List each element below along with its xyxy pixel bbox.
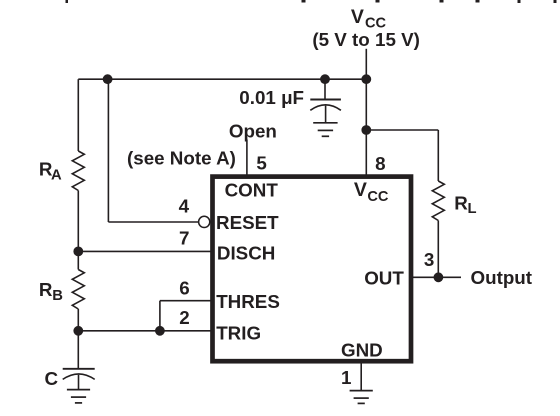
svg-text:C: C (45, 368, 59, 389)
capacitor C arc plate (63, 374, 95, 380)
svg-text:V: V (351, 6, 364, 28)
junction dot DISCH (73, 247, 83, 257)
junction dot TRIG right (155, 326, 165, 336)
svg-text:1: 1 (341, 367, 351, 388)
wire DISCH pin7 (78, 250, 211, 252)
svg-text:GND: GND (341, 340, 383, 361)
svg-text:(see Note A): (see Note A) (127, 147, 236, 168)
junction dot top-left (103, 74, 113, 84)
wire RESET vertical (107, 79, 109, 222)
resistor label RA (39, 158, 62, 183)
node VCC supply label (351, 6, 387, 32)
junction dot OUT (434, 272, 444, 282)
wire THRES pin6 (160, 300, 211, 302)
svg-text:CC: CC (367, 189, 389, 205)
svg-text:Open: Open (229, 120, 277, 141)
wire RESET pin4 (108, 221, 198, 223)
capacitor C bottom lead (78, 375, 80, 390)
resistor RB (72, 270, 84, 310)
wire VCC drop (365, 49, 367, 175)
svg-text:7: 7 (179, 227, 189, 248)
capacitor 0.01uF plate (310, 99, 341, 101)
wire GND pin1 (360, 363, 362, 391)
op-amp U1 555 timer box (213, 177, 412, 362)
capacitor C plate (63, 368, 95, 370)
svg-text:A: A (51, 167, 62, 183)
svg-text:4: 4 (179, 196, 190, 217)
svg-text:THRES: THRES (216, 291, 280, 312)
svg-text:R: R (39, 279, 53, 300)
svg-text:5: 5 (256, 153, 266, 174)
svg-text:2: 2 (179, 307, 189, 328)
ground for C (67, 390, 90, 403)
wire top rail (78, 78, 366, 80)
svg-text:OUT: OUT (364, 267, 404, 288)
svg-text:0.01 μF: 0.01 μF (239, 87, 304, 108)
ground for 0.01uF (313, 123, 337, 137)
svg-text:3: 3 (424, 249, 434, 270)
resistor RA (72, 151, 84, 191)
svg-text:RESET: RESET (216, 212, 279, 233)
resistor label RL (454, 192, 476, 217)
wire RL to OUT (437, 221, 439, 278)
cropped text remnants top edge (66, 0, 557, 3)
wire OUT pin3 (413, 276, 461, 278)
junction dot TRIG left (73, 326, 83, 336)
svg-text:B: B (52, 288, 63, 304)
resistor RL (432, 181, 444, 221)
svg-text:(5 V to 15 V): (5 V to 15 V) (312, 29, 420, 50)
pin label VCC inner (354, 179, 389, 205)
svg-text:DISCH: DISCH (217, 243, 275, 264)
RESET inverting circle pin4 (199, 216, 210, 227)
wire RB to cap C (77, 309, 79, 369)
svg-text:R: R (454, 192, 468, 213)
wire CONT pin5 (246, 140, 248, 176)
wire TRIG pin2 (78, 330, 211, 332)
ground for pin1 (350, 391, 373, 404)
junction dot cap 0.01uF (320, 74, 330, 84)
wire RA to RB (77, 191, 79, 270)
svg-text:6: 6 (179, 277, 189, 298)
capacitor 0.01uF bottom lead (325, 106, 327, 123)
capacitor 0.01uF top lead (324, 79, 326, 99)
capacitor 0.01uF arc plate (310, 105, 341, 111)
wire RA top lead (77, 79, 79, 151)
wire THRES vertical (159, 301, 161, 331)
wire rail to RL (366, 130, 438, 181)
svg-text:TRIG: TRIG (216, 323, 261, 344)
svg-text:8: 8 (375, 153, 385, 174)
resistor label RB (39, 279, 63, 304)
svg-text:L: L (468, 201, 477, 217)
svg-text:V: V (354, 179, 367, 201)
junction dot RL branch (361, 125, 371, 135)
junction dot VCC rail (361, 74, 371, 84)
svg-text:CONT: CONT (225, 180, 279, 201)
svg-text:Output: Output (471, 267, 533, 288)
